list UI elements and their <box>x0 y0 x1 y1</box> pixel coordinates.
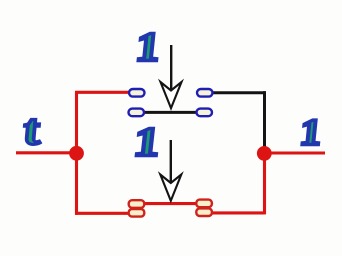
contact pad upper-right-top (blue oval) <box>197 89 213 97</box>
junction node left <box>69 146 84 161</box>
contact pad lower-right-top (red rect) <box>196 200 212 208</box>
junction node right <box>257 146 272 161</box>
contact pad upper-left-top (blue oval) <box>129 89 145 97</box>
wire: right vertical black <box>263 91 266 148</box>
svg-text:1: 1 <box>134 24 163 70</box>
contact pad lower-right-bottom (red rect) <box>196 208 212 216</box>
contact pad upper-left-bottom (blue oval) <box>129 109 145 117</box>
wire: bottom-right horizontal from lower contact <box>210 211 265 214</box>
actuation arrow top (shaft) <box>170 45 172 89</box>
wire: upper contact black bridge <box>143 111 198 114</box>
wire: left vertical branch <box>75 91 78 215</box>
actuation arrow top (head) <box>161 82 182 108</box>
actuation arrow bottom (head) <box>160 175 181 201</box>
svg-text:1: 1 <box>298 111 323 153</box>
wire: lower contact red bridge <box>143 202 198 205</box>
wire: right vertical red branch <box>263 152 266 214</box>
contact pad upper-right-bottom (blue oval) <box>197 109 213 117</box>
wire: top-left horizontal to upper contact <box>75 91 132 94</box>
svg-text:1: 1 <box>132 120 163 165</box>
contact pad lower-left-top (red rect) <box>129 200 145 208</box>
wire: left terminal t to left junction <box>16 151 77 154</box>
wire: bottom-left horizontal to lower contact <box>75 212 132 215</box>
actuation arrow bottom (shaft) <box>170 140 172 182</box>
wire: right terminal to output 1 <box>263 151 325 154</box>
wire: top-right black horizontal <box>210 91 266 94</box>
contact pad lower-left-bottom (red rect) <box>129 209 145 217</box>
